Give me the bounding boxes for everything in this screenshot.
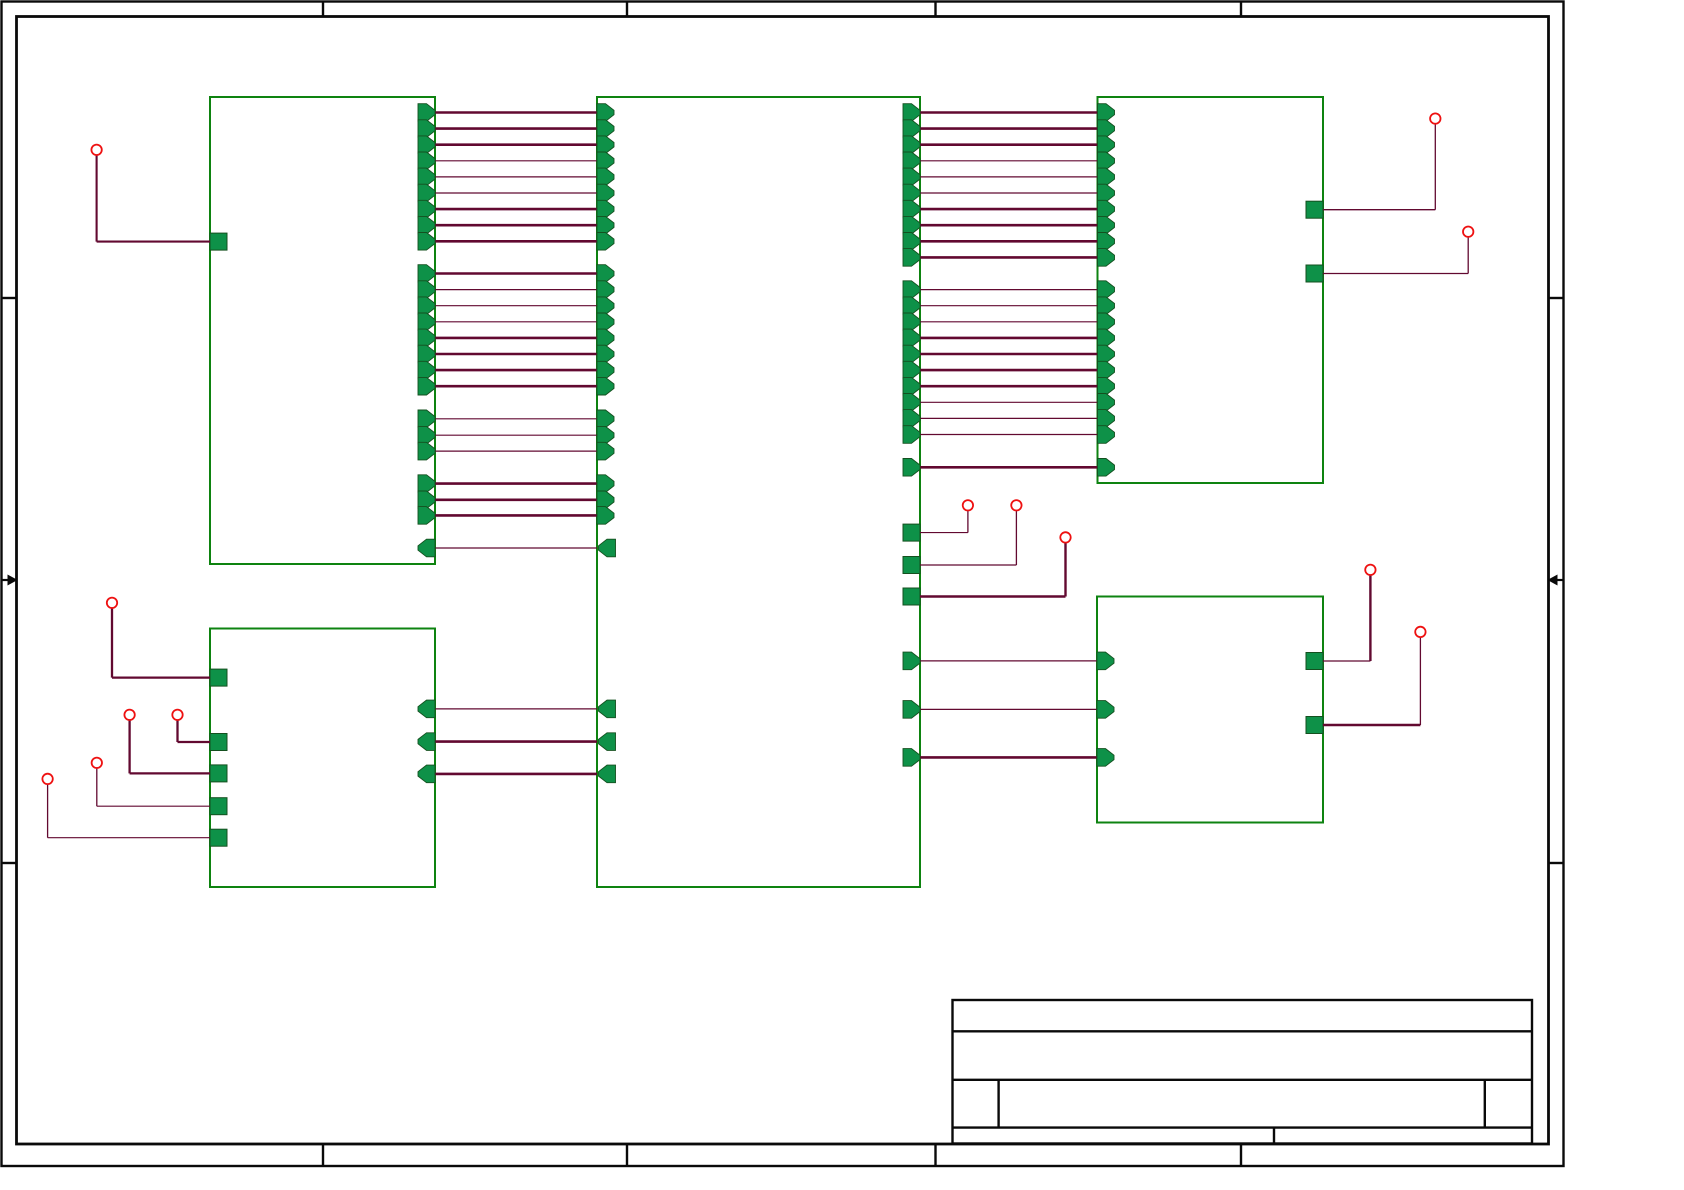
sheet pin S2 left y=418.8 (597, 410, 614, 428)
sheet pin S2 left y=305.7 (597, 297, 614, 315)
open terminal circle for net stub H (to S2 right pin y=565) (1011, 500, 1021, 510)
sheet pin S2 right y=241.3 (903, 233, 920, 251)
wire S2-S3 y=321.8 (920, 321, 1098, 323)
wire S1-S2 y=112.5 (435, 111, 597, 114)
sheet pin S1 right y=209.1 (418, 200, 435, 218)
sheet pin S2 left y=193.0 (597, 184, 614, 202)
wire S2-S3 y=370.1 (920, 369, 1098, 372)
sheet pin S2 right y=144.7 (903, 136, 920, 154)
hierarchical sheet S5 (bottom right) (1097, 597, 1323, 823)
sheet pin S2 right y=209.1 (903, 200, 920, 218)
open terminal circle for net stub D (to S4 pin y=773.4) (124, 710, 134, 720)
sheet pin S1 right y=160.8 (418, 152, 435, 170)
wire S1-S2 y=160.8 (435, 160, 597, 162)
wire S4-S2 y=741.6 (435, 740, 597, 743)
wire S1-S2 y=289.6 (435, 289, 597, 291)
sheet pin S1 right y=354.0 (418, 345, 435, 363)
sheet pin S1 right y=483.6 (418, 475, 435, 493)
sheet pin S1 left (square) y=241.6 (210, 233, 227, 250)
wire S2-S3 y=144.7 (920, 143, 1098, 146)
wire net stub L (to S5 right pin y=661) (1369, 570, 1371, 661)
wire S1-S2 y=176.9 (435, 176, 597, 178)
wire S1-S2 y=386.2 (435, 385, 597, 388)
sheet pin S1 right y=499.8 (418, 491, 435, 509)
open terminal circle for net stub B (to S4 pin y=677.6) (107, 598, 117, 608)
hierarchical sheet S1 (top left) (210, 97, 435, 564)
sheet pin S3 left y=434.5 (1098, 426, 1115, 444)
frame zone tick left y=298 (2, 297, 17, 299)
sheet pin S2 right y=225.2 (903, 216, 920, 234)
sheet pin S2 left (left-pointing) y=548 (599, 539, 616, 557)
sheet pin S2 left y=128.6 (597, 120, 614, 138)
open terminal circle for net stub I (to S2 right pin y=596.5) (1060, 532, 1070, 542)
sheet pin S1 right y=321.8 (418, 313, 435, 331)
sheet pin S2 left y=483.6 (597, 475, 614, 493)
sheet pin S3 left y=418.4 (1098, 410, 1115, 428)
wire S2-S3 y=337.9 (920, 337, 1098, 340)
sheet pin S3 left y=305.7 (1098, 297, 1115, 315)
sheet pin S3 left y=370.1 (1098, 361, 1115, 379)
sheet pin S3 left y=289.6 (1098, 281, 1115, 299)
frame zone tick bottom x=627 (626, 1144, 628, 1166)
sheet pin S3 right (square) y=273.5 (1306, 265, 1323, 282)
wire S2-S3 y=418.4 (920, 417, 1098, 419)
sheet pin S2 left y=241.3 (597, 233, 614, 251)
frame zone tick left y=863 (2, 862, 17, 864)
sheet pin S2 right y=757.4 (903, 749, 920, 767)
title block row line 2 (953, 1079, 1533, 1081)
frame zone tick top x=323 (322, 2, 324, 17)
sheet pin S1 right y=418.8 (418, 410, 435, 428)
wire net stub J (to S3 right pin y=209.7) (1434, 119, 1436, 210)
sheet pin S4 left (square) y=773.4 (210, 765, 227, 782)
sheet pin S2 right y=193.0 (903, 184, 920, 202)
sheet pin S3 right (square) y=209.7 (1306, 201, 1323, 218)
sheet pin S5 right (square) y=725 (1306, 717, 1323, 734)
sheet pin S2 left y=435.2 (597, 426, 614, 444)
sheet pin S1 right y=337.9 (418, 329, 435, 347)
sheet pin S2 right (square) y=532.6 (903, 524, 920, 541)
wire S2-S3 y=128.6 (920, 127, 1098, 130)
wire S4-S2 y=773.9 (435, 773, 597, 776)
sheet pin S3 left y=354.0 (1098, 345, 1115, 363)
frame center arrow left (2, 579, 9, 581)
sheet pin S2 left y=741.6 (599, 733, 616, 751)
wire S2-S3 y=386.2 (920, 385, 1098, 388)
sheet pin S1 right y=128.6 (418, 120, 435, 138)
title block divider right (1484, 1080, 1486, 1128)
wire net stub D (to S4 pin y=773.4) (128, 715, 130, 774)
sheet pin S4 left (square) y=806.2 (210, 798, 227, 815)
wire S1-S2 y=241.3 (435, 240, 597, 243)
wire S1-S2 y=337.9 (435, 337, 597, 340)
sheet pin S1 right y=515.4 (418, 507, 435, 525)
sheet pin S1 right y=112.5 (418, 104, 435, 122)
wire S2-S3 y=402.3 (920, 401, 1098, 403)
wire S1-S2 y=225.2 (435, 224, 597, 227)
wire S2-S3 y=225.2 (920, 224, 1098, 227)
sheet pin S2 left y=354.0 (597, 345, 614, 363)
sheet pin S2 right y=354.0 (903, 345, 920, 363)
sheet pin S2 right y=467.3 (903, 459, 920, 477)
sheet pin S3 left y=241.3 (1098, 233, 1115, 251)
open terminal circle for net stub G (to S2 right pin y=532.6) (963, 500, 973, 510)
wire S1-S2 y=193.0 (435, 192, 597, 194)
sheet pin S4 right y=773.9 (418, 765, 435, 783)
wire S2-S3 net y=467.3 (920, 466, 1098, 469)
sheet pin S2 left y=337.9 (597, 329, 614, 347)
sheet pin S1 right y=289.6 (418, 281, 435, 299)
wire net stub H (to S2 right pin y=565) (1015, 505, 1017, 565)
sheet pin S2 right y=418.4 (903, 410, 920, 428)
sheet pin S2 left y=499.8 (597, 491, 614, 509)
sheet pin S2 right y=305.7 (903, 297, 920, 315)
wire S2-S3 y=257.4 (920, 256, 1098, 259)
sheet pin S3 left y=160.8 (1098, 152, 1115, 170)
sheet pin S2 left y=176.9 (597, 168, 614, 186)
frame zone tick bottom x=323 (322, 1144, 324, 1166)
sheet pin S4 left (square) y=742 (210, 734, 227, 751)
wire net stub I (to S2 right pin y=596.5) (1064, 537, 1066, 596)
wire S4-S2 y=708.9 (435, 708, 597, 710)
open terminal circle for net stub L (to S5 right pin y=661) (1365, 565, 1375, 575)
wire S2-S3 y=193.0 (920, 192, 1098, 194)
wire S1-S2 y=321.8 (435, 321, 597, 323)
sheet pin S1 right y=370.1 (418, 361, 435, 379)
sheet pin S1 right y=241.3 (418, 233, 435, 251)
sheet pin S2 right y=370.1 (903, 361, 920, 379)
wire S1-S2 y=144.7 (435, 143, 597, 146)
hierarchical sheet S2 (middle) (597, 97, 920, 887)
frame zone tick bottom x=1241 (1240, 1144, 1242, 1166)
sheet pin S4 left (square) y=837.7 (210, 829, 227, 846)
sheet pin S2 right y=257.4 (903, 249, 920, 267)
wire S2-S3 y=112.5 (920, 111, 1098, 114)
sheet pin S4 right y=741.6 (418, 733, 435, 751)
sheet pin S2 right y=289.6 (903, 281, 920, 299)
wire net stub A (to S1 left pin) (96, 150, 98, 242)
sheet pin S2 left y=708.9 (599, 700, 616, 718)
title block row line 1 (953, 1030, 1533, 1032)
sheet pin S3 left y=144.7 (1098, 136, 1115, 154)
sheet pin S3 left y=467.3 (1098, 459, 1115, 477)
sheet pin S5 left y=660.9 (1097, 652, 1114, 670)
wire S1-S2 y=451.1 (435, 450, 597, 452)
sheet pin S3 left y=112.5 (1098, 104, 1115, 122)
sheet pin S2 right (square) y=565 (903, 557, 920, 574)
wire S1-S2 y=515.4 (435, 514, 597, 517)
sheet pin S1 right y=435.2 (418, 426, 435, 444)
wire S2-S5 y=757.4 (920, 756, 1097, 759)
sheet pin S3 left y=386.2 (1098, 377, 1115, 395)
sheet pin S2 right y=176.9 (903, 168, 920, 186)
open terminal circle for net stub A (to S1 left pin) (91, 145, 101, 155)
wire S1-S2 y=305.7 (435, 305, 597, 307)
frame zone tick top x=935.5 (934, 2, 936, 17)
open terminal circle for net stub K (to S3 right pin y=273.5) (1463, 227, 1473, 237)
sheet pin S1 right (output, left-pointing) y=548 (418, 539, 435, 557)
wire net stub K (to S3 right pin y=273.5) (1467, 232, 1469, 274)
sheet pin S1 right y=144.7 (418, 136, 435, 154)
sheet pin S2 left y=160.8 (597, 152, 614, 170)
wire net stub E (to S4 pin y=806.2) (96, 763, 98, 806)
title block divider left (997, 1080, 999, 1128)
sheet pin S3 left y=176.9 (1098, 168, 1115, 186)
sheet pin S3 left y=257.4 (1098, 249, 1115, 267)
sheet pin S2 left y=451.1 (597, 442, 614, 460)
open terminal circle for net stub F (to S4 pin y=837.7) (42, 774, 52, 784)
sheet pin S3 left y=402.3 (1098, 394, 1115, 412)
wire S1-S2 y=483.6 (435, 482, 597, 485)
sheet pin S2 right y=112.5 (903, 104, 920, 122)
wire net stub C (to S4 pin y=742) (176, 715, 178, 742)
sheet pin S2 left y=112.5 (597, 104, 614, 122)
wire S2-S3 y=305.7 (920, 305, 1098, 307)
sheet pin S3 left y=337.9 (1098, 329, 1115, 347)
wire S1-S2 y=435.2 (435, 434, 597, 436)
open terminal circle for net stub M (to S5 right pin y=725) (1415, 627, 1425, 637)
wire S2-S3 y=160.8 (920, 160, 1098, 162)
open terminal circle for net stub C (to S4 pin y=742) (172, 710, 182, 720)
sheet pin S5 right (square) y=661 (1306, 653, 1323, 670)
hierarchical sheet S3 (top right) (1098, 97, 1324, 483)
wire S2-S3 y=209.1 (920, 208, 1098, 211)
sheet pin S2 right y=128.6 (903, 120, 920, 138)
sheet pin S2 left y=225.2 (597, 216, 614, 234)
sheet pin S2 right (square) y=596.5 (903, 588, 920, 605)
sheet pin S2 left y=289.6 (597, 281, 614, 299)
title block bottom divider (1273, 1128, 1275, 1144)
sheet pin S2 right y=337.9 (903, 329, 920, 347)
wire S1-S2 y=273.5 (435, 272, 597, 275)
title block outline (953, 1000, 1533, 1144)
hierarchical sheet S4 (bottom left) (210, 629, 435, 888)
frame zone tick right y=298 (1548, 297, 1563, 299)
sheet pin S5 left y=709.4 (1097, 701, 1114, 719)
wire S2-S3 y=176.9 (920, 176, 1098, 178)
sheet pin S2 right y=160.8 (903, 152, 920, 170)
sheet pin S1 right y=193.0 (418, 184, 435, 202)
frame zone tick bottom x=935.5 (934, 1144, 936, 1166)
sheet pin S3 left y=225.2 (1098, 216, 1115, 234)
sheet pin S2 left y=321.8 (597, 313, 614, 331)
wire S1-S2 y=499.8 (435, 498, 597, 501)
sheet pin S2 right y=709.4 (903, 701, 920, 719)
frame center arrow right (1556, 579, 1563, 581)
frame zone tick top x=627 (626, 2, 628, 17)
sheet pin S1 right y=176.9 (418, 168, 435, 186)
sheet pin S2 left y=386.2 (597, 377, 614, 395)
title block row line 3 (953, 1126, 1533, 1128)
wire net stub B (to S4 pin y=677.6) (111, 603, 113, 678)
sheet pin S1 right y=225.2 (418, 216, 435, 234)
wire S2-S3 y=354.0 (920, 353, 1098, 356)
sheet pin S5 left y=757.4 (1097, 749, 1114, 767)
sheet pin S4 left (square) y=677.6 (210, 669, 227, 686)
sheet pin S4 right y=708.9 (418, 700, 435, 718)
wire net stub M (to S5 right pin y=725) (1419, 632, 1421, 725)
wire S2-S3 y=434.5 (920, 434, 1098, 436)
sheet pin S2 left y=144.7 (597, 136, 614, 154)
sheet pin S2 left y=773.9 (599, 765, 616, 783)
wire S2-S3 y=241.3 (920, 240, 1098, 243)
sheet pin S3 left y=321.8 (1098, 313, 1115, 331)
sheet pin S1 right y=273.5 (418, 265, 435, 283)
sheet pin S2 right y=386.2 (903, 377, 920, 395)
sheet pin S3 left y=193.0 (1098, 184, 1115, 202)
wire S1-S2 y=128.6 (435, 127, 597, 130)
sheet pin S2 left y=515.4 (597, 507, 614, 525)
frame zone tick right y=863 (1548, 862, 1563, 864)
wire S2-S5 y=709.4 (920, 708, 1097, 710)
sheet pin S2 right y=402.3 (903, 394, 920, 412)
sheet pin S3 left y=128.6 (1098, 120, 1115, 138)
wire net stub F (to S4 pin y=837.7) (47, 779, 49, 838)
wire S1-S2 y=370.1 (435, 369, 597, 372)
wire S2-S3 y=289.6 (920, 289, 1098, 291)
frame zone tick top x=1241 (1240, 2, 1242, 17)
open terminal circle for net stub J (to S3 right pin y=209.7) (1430, 113, 1440, 123)
sheet pin S2 left y=209.1 (597, 200, 614, 218)
sheet pin S2 right y=660.9 (903, 652, 920, 670)
wire S1-S2 y=209.1 (435, 208, 597, 211)
sheet pin S2 left y=370.1 (597, 361, 614, 379)
wire S2-S5 y=660.9 (920, 660, 1097, 662)
wire S1-S2 y=354.0 (435, 353, 597, 356)
sheet pin S2 right y=321.8 (903, 313, 920, 331)
sheet pin S2 left y=273.5 (597, 265, 614, 283)
wire net stub G (to S2 right pin y=532.6) (967, 505, 969, 532)
sheet pin S2 right y=434.5 (903, 426, 920, 444)
wire S1-S2 return net y=548 (435, 547, 597, 549)
wire S1-S2 y=418.8 (435, 418, 597, 420)
open terminal circle for net stub E (to S4 pin y=806.2) (92, 758, 102, 768)
sheet pin S1 right y=451.1 (418, 442, 435, 460)
sheet pin S1 right y=305.7 (418, 297, 435, 315)
sheet pin S1 right y=386.2 (418, 377, 435, 395)
sheet pin S3 left y=209.1 (1098, 200, 1115, 218)
